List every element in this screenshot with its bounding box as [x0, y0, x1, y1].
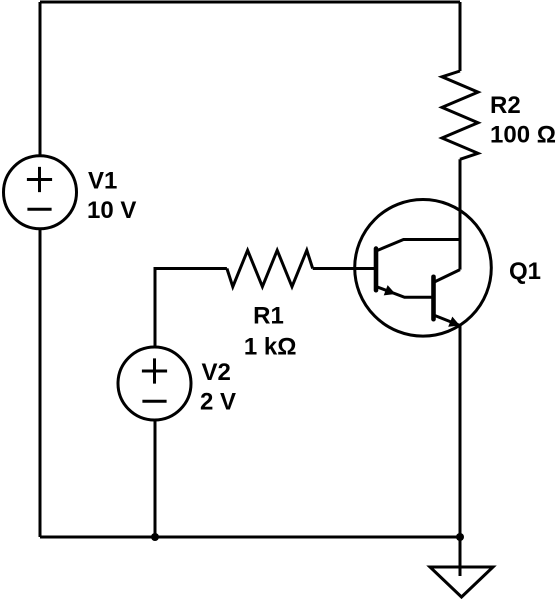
svg-text:1 kΩ: 1 kΩ	[244, 334, 297, 361]
svg-text:Q1: Q1	[509, 258, 541, 285]
svg-text:R2: R2	[490, 92, 521, 119]
resistor R1	[227, 250, 313, 286]
wire left lower	[39, 230, 42, 537]
wire emitter vertical	[459, 325, 462, 537]
svg-text:100 Ω: 100 Ω	[490, 122, 556, 149]
wire collector vertical	[459, 159, 462, 269]
svg-text:10 V: 10 V	[87, 197, 136, 224]
ground stub	[459, 537, 462, 576]
svg-text:R1: R1	[253, 303, 284, 330]
wire bottom	[40, 536, 460, 539]
V1 minus sign	[27, 208, 51, 211]
wire node B horizontal	[155, 269, 227, 347]
svg-text:V1: V1	[88, 168, 117, 195]
transistor Q1a emitter	[376, 287, 434, 298]
wire R1 to base	[313, 267, 376, 270]
transistor Q1b base bar	[431, 277, 436, 319]
V2 minus sign	[142, 400, 166, 403]
svg-text:2 V: 2 V	[200, 389, 236, 416]
wire left upper	[39, 2, 42, 155]
V2 plus sign	[142, 358, 167, 383]
junction node V2-bottom	[151, 533, 159, 541]
ground symbol	[430, 567, 493, 597]
wire top	[40, 1, 460, 4]
wire right upper	[459, 2, 462, 71]
V1 plus sign	[27, 167, 52, 192]
transistor Q1a base bar	[374, 249, 379, 291]
junction node emitter-bottom	[456, 533, 464, 541]
voltage source V1	[4, 156, 77, 229]
transistor Q1b collector	[434, 270, 461, 283]
transistor Q1a collector	[376, 240, 460, 252]
voltage source V2	[118, 347, 191, 420]
transistor Q1 circle	[355, 199, 492, 336]
transistor Q1b emitter	[434, 315, 461, 326]
svg-text:V2: V2	[202, 359, 231, 386]
transistor Q1b emitter arrow	[448, 317, 462, 331]
transistor Q1a emitter arrow	[384, 285, 398, 299]
resistor R2	[442, 71, 478, 159]
wire V2 bottom	[154, 421, 157, 537]
